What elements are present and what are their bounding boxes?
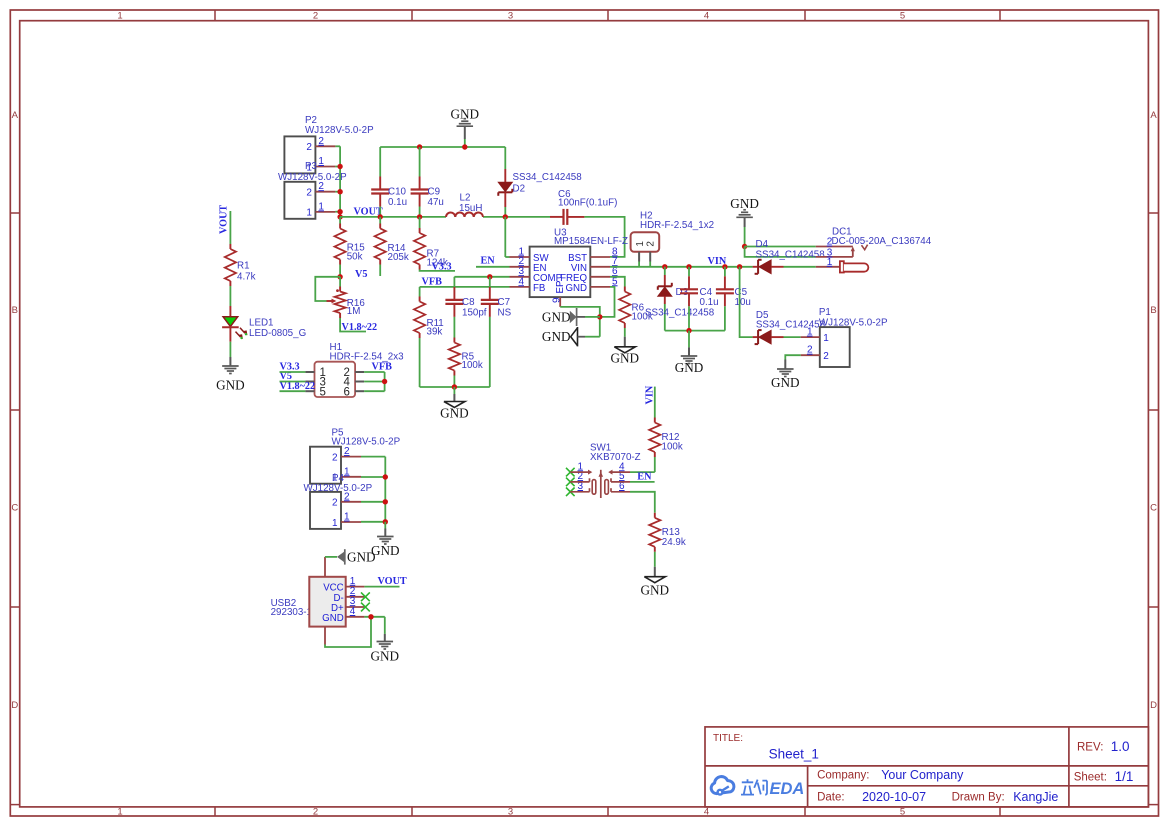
junction R15 bottom [337, 274, 342, 279]
wire DC1 pin2/pin3 [745, 247, 816, 257]
junction C10 VOUT [378, 214, 383, 219]
wire P1 pin2 to ground [785, 355, 800, 359]
svg-text:C9: C9 [428, 187, 441, 198]
svg-text:A: A [1150, 110, 1157, 121]
svg-text:1: 1 [318, 156, 324, 167]
wire VIN rail [610, 266, 753, 268]
svg-text:3: 3 [508, 807, 513, 818]
svg-text:2: 2 [332, 498, 338, 509]
svg-text:100k: 100k [462, 360, 483, 371]
wire SW1 pin6 to R13 [630, 492, 655, 513]
no-connect X on D- [361, 592, 370, 601]
svg-text:GND: GND [347, 550, 376, 565]
svg-text:D: D [11, 700, 18, 711]
svg-text:WJ128V-5.0-2P: WJ128V-5.0-2P [304, 483, 373, 494]
svg-text:2020-10-07: 2020-10-07 [862, 790, 926, 804]
power flag GND 2 [542, 327, 600, 346]
svg-text:GND: GND [216, 378, 245, 393]
svg-text:0.1u: 0.1u [700, 297, 719, 308]
svg-text:1: 1 [344, 512, 350, 523]
IC U3 MP1584EN [510, 227, 629, 307]
svg-text:LED1: LED1 [249, 317, 274, 328]
header H1 [305, 342, 404, 398]
svg-text:B: B [1150, 305, 1156, 316]
svg-text:GND: GND [611, 351, 640, 366]
svg-text:24.9k: 24.9k [662, 537, 686, 548]
svg-text:2: 2 [313, 807, 318, 818]
svg-text:C: C [11, 503, 18, 514]
svg-text:2: 2 [344, 446, 350, 457]
junction P4 pin1 [383, 519, 388, 524]
svg-text:50k: 50k [347, 251, 363, 262]
svg-text:TITLE:: TITLE: [713, 733, 743, 744]
svg-text:GND: GND [565, 283, 587, 294]
svg-text:WJ128V-5.0-2P: WJ128V-5.0-2P [278, 172, 347, 183]
junction P4 pin2 [383, 499, 388, 504]
title block [705, 727, 1148, 807]
svg-text:2: 2 [827, 237, 833, 248]
svg-text:1: 1 [823, 333, 829, 344]
svg-text:2: 2 [306, 142, 312, 153]
resistor R6 [619, 287, 653, 337]
svg-text:C10: C10 [388, 187, 407, 198]
junction C4 top [686, 264, 691, 269]
svg-text:1/1: 1/1 [1115, 769, 1134, 784]
ground below C4 [675, 331, 704, 376]
EasyEDA logo [711, 777, 767, 795]
svg-text:SS34_C142458: SS34_C142458 [756, 249, 826, 260]
capacitor C7 [481, 277, 512, 387]
svg-text:GND: GND [542, 329, 571, 344]
svg-text:15uH: 15uH [459, 203, 482, 214]
wire USB2 GND net [325, 617, 385, 647]
junction DC1 gnd [742, 244, 747, 249]
resistor R5 [449, 338, 483, 388]
ground below LED1 [216, 342, 245, 393]
svg-text:EDA: EDA [770, 780, 805, 798]
svg-text:2: 2 [823, 351, 829, 362]
svg-text:100k: 100k [662, 441, 683, 452]
svg-text:GND: GND [641, 583, 670, 598]
wire SW1 pin5 EN [630, 481, 655, 483]
svg-text:VIN: VIN [644, 385, 655, 404]
wire P2/P3 output rail [335, 146, 340, 217]
svg-text:D2: D2 [513, 184, 526, 195]
wire EN stub [476, 266, 510, 268]
wire SW node to U3 pin1 [505, 217, 509, 257]
svg-text:KangJie: KangJie [1013, 790, 1058, 804]
svg-text:292303-1: 292303-1 [271, 607, 312, 618]
USB connector USB2 [271, 557, 365, 645]
junction P3 pin1 [337, 209, 342, 214]
svg-text:1.0: 1.0 [1111, 739, 1130, 754]
svg-text:VOUT: VOUT [378, 576, 407, 587]
capacitor C4 [680, 267, 719, 331]
capacitor C9 [411, 147, 444, 217]
svg-text:P3: P3 [305, 161, 318, 172]
svg-text:1: 1 [635, 241, 646, 247]
svg-text:B: B [12, 305, 18, 316]
capacitor C6 [550, 189, 617, 225]
capacitor C5 [716, 267, 751, 331]
svg-text:3: 3 [508, 10, 513, 21]
svg-text:5: 5 [900, 807, 905, 818]
svg-text:39k: 39k [427, 327, 443, 338]
diode D4 [753, 239, 826, 274]
svg-text:4: 4 [350, 606, 356, 617]
resistor R14 [375, 217, 409, 276]
DC jack DC1 [816, 227, 932, 273]
trimmer resistor R16 [315, 277, 366, 332]
ground below P1 [771, 360, 800, 391]
diode D5 [753, 310, 826, 344]
wire EP to ground [560, 307, 600, 337]
wire D3/C4/C5 ground rail [665, 330, 725, 332]
wire SW1 pin4 to R12 [630, 471, 655, 473]
wire C6 to BST [584, 217, 624, 257]
svg-text:2: 2 [313, 10, 318, 21]
wire USB2 VCC [364, 586, 399, 588]
ground below USB2 [371, 634, 400, 664]
junction D5 branch [737, 264, 742, 269]
junction H1 pin4 [382, 379, 387, 384]
wire P5/P4 ground rail [361, 457, 385, 522]
junction USB2 pin4 [368, 614, 373, 619]
capacitor C8 [445, 277, 486, 338]
junction C5 top [722, 264, 727, 269]
ground below P4 rail [371, 522, 400, 558]
svg-text:4: 4 [704, 10, 709, 21]
resistor R1 [225, 211, 256, 306]
svg-text:100nF(0.1uF): 100nF(0.1uF) [558, 198, 617, 209]
svg-text:GND: GND [771, 375, 800, 390]
junction D3 top [662, 264, 667, 269]
svg-text:47u: 47u [428, 197, 444, 208]
svg-text:2: 2 [807, 345, 813, 356]
resistor R11 [414, 287, 444, 387]
svg-text:SS34_C142458: SS34_C142458 [756, 320, 826, 331]
svg-text:NS: NS [498, 307, 512, 318]
svg-text:4.7k: 4.7k [237, 272, 256, 283]
wire H1 right pins [364, 372, 385, 391]
connector P1 [801, 307, 888, 367]
svg-text:1: 1 [827, 257, 833, 268]
wire FB rail [420, 286, 510, 288]
svg-text:Drawn By:: Drawn By: [952, 792, 1005, 804]
junction P5 pin1 [383, 474, 388, 479]
ground below R5 [440, 387, 469, 421]
junction top rail C9 [417, 144, 422, 149]
header H2 [631, 211, 714, 267]
junction P3 pin2 [337, 189, 342, 194]
wire U3 GND pin5 [600, 287, 615, 317]
svg-text:1: 1 [332, 518, 338, 529]
resistor R15 [335, 217, 366, 277]
svg-text:REV:: REV: [1077, 742, 1103, 754]
svg-text:4: 4 [704, 807, 709, 818]
junction C9 VOUT [417, 214, 422, 219]
power symbol GND at DC1 [730, 196, 759, 246]
svg-text:1M: 1M [347, 306, 361, 317]
svg-text:R1: R1 [237, 261, 250, 272]
junction C7 top [487, 274, 492, 279]
power flag GND above USB2 [325, 549, 376, 565]
svg-text:Company:: Company: [817, 770, 869, 782]
svg-text:1: 1 [117, 10, 122, 21]
svg-text:MP1584EN-LF-Z: MP1584EN-LF-Z [554, 236, 628, 247]
junction D2 VOUT [503, 214, 508, 219]
svg-text:5: 5 [612, 276, 618, 287]
diode D2 [498, 147, 582, 217]
switch SW1 [566, 442, 641, 498]
wire bottom rail R11/R5/C7 [420, 386, 490, 388]
junction VOUT rail left [337, 214, 342, 219]
svg-text:VFB: VFB [422, 276, 443, 287]
svg-text:VOUT: VOUT [219, 205, 230, 234]
svg-text:0.1u: 0.1u [388, 197, 407, 208]
svg-text:Your Company: Your Company [881, 768, 964, 782]
connector P4 [304, 473, 373, 529]
junction R5 bottom [452, 384, 457, 389]
svg-text:1: 1 [117, 807, 122, 818]
svg-text:V1.8~22: V1.8~22 [342, 322, 378, 333]
svg-text:GND: GND [542, 309, 571, 324]
svg-text:1: 1 [306, 208, 312, 219]
svg-text:205k: 205k [388, 252, 409, 263]
connector P5 [310, 428, 401, 484]
capacitor C10 [371, 147, 407, 217]
svg-text:XKB7070-Z: XKB7070-Z [590, 452, 641, 463]
svg-text:D: D [1150, 700, 1157, 711]
svg-text:GND: GND [371, 649, 400, 664]
svg-text:Date:: Date: [817, 792, 845, 804]
svg-text:10u: 10u [735, 297, 751, 308]
svg-text:2: 2 [306, 188, 312, 199]
svg-text:150pf: 150pf [462, 307, 487, 318]
svg-text:VFB: VFB [372, 362, 393, 373]
wire VOUT rail [340, 216, 550, 218]
svg-text:HDR-F-2.54_1x2: HDR-F-2.54_1x2 [640, 220, 714, 231]
svg-text:EN: EN [481, 256, 496, 267]
svg-text:V3.3: V3.3 [432, 262, 452, 273]
diode D3 [645, 267, 715, 331]
inductor L2 [446, 193, 483, 217]
svg-text:6: 6 [344, 386, 350, 398]
svg-text:C: C [1150, 503, 1157, 514]
svg-text:LED-0805_G: LED-0805_G [249, 328, 306, 339]
svg-text:GND: GND [675, 360, 704, 375]
power flag GND 1 [542, 308, 600, 326]
svg-text:1: 1 [318, 201, 324, 212]
svg-text:V5: V5 [355, 269, 367, 280]
svg-text:2: 2 [318, 136, 324, 147]
svg-text:SS34_C142458: SS34_C142458 [645, 308, 715, 319]
wire FREQ to R6 [610, 277, 625, 287]
svg-text:WJ128V-5.0-2P: WJ128V-5.0-2P [305, 125, 374, 136]
svg-text:FB: FB [533, 283, 545, 294]
svg-text:A: A [12, 110, 19, 121]
resistor R7 [414, 217, 455, 271]
svg-text:5: 5 [900, 10, 905, 21]
resistor R12 [649, 387, 683, 473]
wire top ground rail [380, 146, 505, 148]
svg-text:1: 1 [344, 466, 350, 477]
junction EP/GND node [597, 314, 602, 319]
junction C4 bottom [686, 328, 691, 333]
svg-text:EP: EP [555, 281, 566, 294]
wire H1 left pins [280, 372, 306, 391]
ground below R6 [611, 337, 640, 366]
resistor R13 [649, 513, 686, 567]
svg-text:2: 2 [332, 452, 338, 463]
connector P2 [284, 115, 374, 173]
svg-text:GND: GND [322, 613, 344, 624]
wire VIN to D5 [740, 267, 753, 337]
LED LED1 [222, 306, 306, 342]
svg-text:GND: GND [440, 406, 469, 421]
wire COMP rail [454, 276, 509, 278]
junction top rail GND [462, 144, 467, 149]
svg-text:HDR-F-2.54_2x3: HDR-F-2.54_2x3 [330, 351, 405, 362]
svg-text:SS34_C142458: SS34_C142458 [513, 172, 583, 183]
svg-text:Sheet_1: Sheet_1 [769, 747, 819, 762]
ground below R13 [641, 567, 670, 598]
svg-text:DC-005-20A_C136744: DC-005-20A_C136744 [832, 236, 932, 247]
svg-text:2: 2 [645, 241, 656, 247]
svg-text:V1.8~22: V1.8~22 [280, 381, 316, 392]
svg-text:Sheet:: Sheet: [1074, 772, 1107, 784]
svg-text:WJ128V-5.0-2P: WJ128V-5.0-2P [332, 437, 401, 448]
connector P3 [278, 161, 347, 219]
svg-text:4: 4 [518, 276, 524, 287]
power symbol GND top [451, 106, 480, 147]
junction P2 pin1 [337, 164, 342, 169]
svg-text:5: 5 [320, 386, 326, 398]
no-connect X on D+ [361, 603, 370, 612]
svg-text:1: 1 [807, 327, 813, 338]
svg-text:9: 9 [551, 297, 562, 303]
